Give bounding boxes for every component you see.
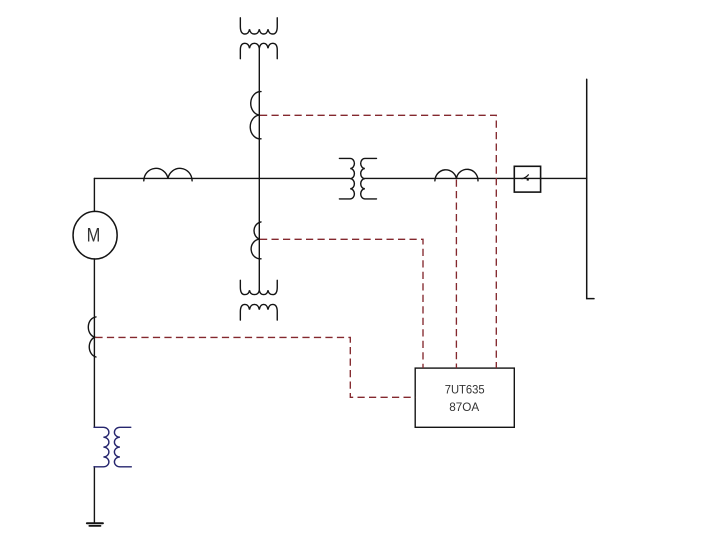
svg-text:M: M [87,225,101,247]
current transformer CT2 on center vertical [251,222,261,259]
circuit breaker blade [522,175,528,179]
ground bar 1 [87,522,103,524]
circuit breaker contact dot [527,179,529,181]
transformer T3 right winding [361,158,377,199]
current transformer CT-A on horizontal bus [144,168,192,181]
ground bar 2 [89,525,100,527]
neutral grounding transformer T4 right winding (blue) [114,427,131,467]
wire: blue transformer to ground [93,467,95,524]
wire: main horizontal bus right of T3 [365,177,587,179]
transformer T1 top winding [240,18,277,34]
circuit breaker box [514,166,540,192]
neutral grounding transformer T4 left winding (blue) [94,427,131,467]
svg-text:7UT635: 7UT635 [445,383,485,397]
wire: left vertical from bus to motor [93,178,95,211]
transformer T2 bottom winding [240,304,277,320]
CT secondary lead from CT2 to relay [260,239,423,368]
transformer T3 left winding [339,158,354,199]
wire: center vertical from T1 to T2 [258,48,260,290]
CT secondary lead from CT1 to relay [260,115,496,368]
current transformer CT3 on left vertical [88,317,96,357]
current transformer CT-B on horizontal bus [435,169,478,181]
CT secondary lead from CT3 to relay [95,337,415,397]
current transformer CT1 on center vertical [250,92,261,139]
CT secondary lead from CT-B to relay [455,180,457,369]
transformer T2 top winding [240,280,277,294]
wire: motor to blue transformer [93,259,95,427]
busbar right [587,79,594,298]
transformer T1 bottom winding [240,43,277,58]
motor M1 circle [73,211,117,259]
relay box 7UT635 [415,368,514,427]
wire: main horizontal bus left of T3 [94,177,350,179]
svg-text:87OA: 87OA [449,400,480,414]
